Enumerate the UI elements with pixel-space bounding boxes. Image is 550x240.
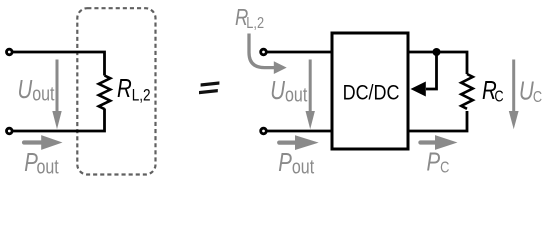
node junction on output top wire: [433, 48, 441, 56]
wire (right circuit input, bottom): [267, 130, 333, 133]
feedback control arrow into DC/DC: [411, 52, 437, 97]
terminal (left circuit, bottom): [7, 128, 13, 134]
label Uout (left): [18, 75, 55, 105]
wire (left circuit, bottom): [13, 109, 105, 132]
svg-text:PC: PC: [427, 147, 450, 177]
label RL,2 (right circuit input impedance): [235, 5, 264, 32]
equals sign: [199, 81, 219, 94]
label RC: [482, 76, 504, 106]
voltage arrow Uout (right): [306, 60, 315, 130]
DC/DC converter block: [332, 33, 408, 149]
label DC/DC: [343, 81, 400, 105]
wire (right circuit input, top): [267, 51, 333, 54]
svg-text:Uout: Uout: [18, 75, 55, 105]
power arrow PC: [420, 135, 457, 150]
resistor RL,2 (left): [99, 76, 111, 110]
label PC: [427, 147, 450, 177]
label RL,2 (left resistor value): [117, 74, 151, 105]
voltage arrow Uout (left): [52, 60, 61, 130]
curved arrow from RL,2 into input port: [249, 34, 287, 75]
power arrow Pout (right): [279, 135, 319, 150]
voltage arrow UC: [509, 60, 519, 130]
svg-text:Pout: Pout: [278, 148, 314, 178]
wire (left circuit, top): [13, 52, 105, 76]
svg-text:DC/DC: DC/DC: [343, 81, 400, 105]
dashed enclosure around left equivalent load: [77, 8, 155, 174]
wire (DC/DC output, bottom): [408, 111, 467, 131]
svg-text:Pout: Pout: [24, 148, 58, 178]
terminal (right circuit, bottom): [261, 128, 267, 134]
svg-text:RL,2: RL,2: [117, 74, 151, 105]
svg-text:RL,2: RL,2: [235, 5, 264, 32]
wire (DC/DC output, top): [408, 52, 467, 74]
power arrow Pout (left): [24, 135, 63, 150]
svg-text:RC: RC: [482, 76, 504, 106]
terminal (right circuit, top): [261, 49, 267, 55]
label UC: [519, 76, 542, 106]
svg-text:Uout: Uout: [270, 76, 307, 106]
svg-text:UC: UC: [519, 76, 542, 106]
resistor RC: [461, 74, 473, 109]
label Pout (left): [24, 148, 58, 178]
label Pout (right): [278, 148, 314, 178]
terminal (left circuit, top): [7, 49, 13, 55]
label Uout (right): [270, 76, 307, 106]
